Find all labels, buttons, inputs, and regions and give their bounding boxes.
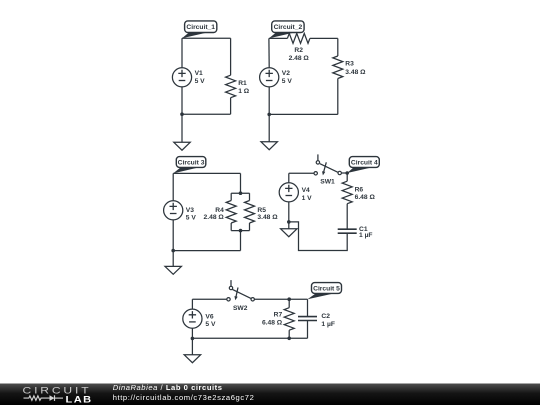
svg-text:Circuit_2: Circuit_2 bbox=[274, 24, 303, 31]
svg-text:1 V: 1 V bbox=[302, 195, 313, 202]
wire ground stub c2 bbox=[268, 114, 270, 141]
resistor R3 bbox=[333, 56, 366, 79]
svg-text:5 V: 5 V bbox=[195, 78, 206, 85]
svg-text:6.48 Ω: 6.48 Ω bbox=[355, 194, 376, 201]
ground c3 bbox=[165, 266, 181, 274]
voltage source V4 bbox=[279, 183, 312, 202]
wire top-left c2 bbox=[269, 37, 288, 39]
svg-text:R2: R2 bbox=[294, 47, 303, 54]
wire right upper c1 bbox=[230, 38, 232, 75]
resistor R2 bbox=[287, 33, 310, 62]
node Circuit 4 flag bbox=[347, 157, 379, 173]
svg-text:V3: V3 bbox=[186, 207, 194, 214]
node Circuit 3 flag bbox=[173, 157, 206, 174]
wire c1 bottom loop bbox=[289, 222, 347, 251]
wire right upper c2 bbox=[337, 38, 339, 56]
footer bar bbox=[0, 384, 540, 405]
wire bottom c1 bbox=[182, 113, 231, 115]
wire left lower c3 bbox=[172, 220, 174, 251]
svg-text:Circuit 4: Circuit 4 bbox=[351, 159, 378, 166]
svg-text:5 V: 5 V bbox=[205, 321, 216, 328]
svg-text:Circuit 5: Circuit 5 bbox=[313, 285, 340, 292]
svg-text:1 µF: 1 µF bbox=[359, 232, 373, 239]
ground c5 bbox=[184, 355, 200, 363]
svg-text:R7: R7 bbox=[274, 311, 283, 318]
wire r7 to c2 corner bbox=[289, 298, 307, 300]
node junction r7 bottom bbox=[287, 337, 291, 341]
node junction sw1/r6 bbox=[345, 171, 349, 175]
svg-text:V6: V6 bbox=[205, 313, 213, 320]
node junction c3 bbox=[171, 249, 175, 253]
wire bottom c5 bbox=[192, 337, 307, 339]
resistor R6 bbox=[342, 173, 375, 204]
wire right riser c3 bbox=[240, 231, 242, 251]
node junction c4 bbox=[287, 220, 291, 224]
wire v4 top riser bbox=[288, 173, 290, 182]
svg-text:1 Ω: 1 Ω bbox=[238, 88, 250, 95]
ground c4 bbox=[281, 229, 297, 237]
footer attribution line bbox=[113, 383, 223, 392]
capacitor C2 bbox=[298, 299, 335, 338]
svg-text:5 V: 5 V bbox=[186, 214, 197, 221]
ground c2 bbox=[261, 142, 277, 150]
resistor R7 bbox=[262, 299, 294, 338]
wire left lower c2 bbox=[268, 87, 270, 115]
wire bottom c3 bbox=[173, 250, 240, 252]
svg-text:R3: R3 bbox=[345, 61, 354, 68]
voltage source V6 bbox=[183, 309, 216, 328]
voltage source V3 bbox=[164, 201, 197, 222]
svg-text:http://circuitlab.com/c73e2sza: http://circuitlab.com/c73e2sza6gc72 bbox=[113, 393, 255, 402]
wire ground stub c1 bbox=[181, 114, 183, 142]
node junction c5 bbox=[191, 337, 195, 341]
svg-text:V2: V2 bbox=[282, 70, 290, 77]
svg-text:1 µF: 1 µF bbox=[321, 321, 335, 328]
CircuitLab logo wordmark bbox=[22, 386, 91, 396]
ground c1 bbox=[174, 142, 190, 150]
node junction sw2/r7 bbox=[287, 297, 291, 301]
svg-text:5 V: 5 V bbox=[282, 78, 293, 85]
wire to switch left c4 bbox=[289, 172, 314, 174]
CircuitLab logo circuit glyph bbox=[24, 395, 64, 401]
svg-text:R1: R1 bbox=[238, 80, 247, 87]
resistor R4 bbox=[204, 193, 237, 230]
wire left upper c1 bbox=[181, 38, 183, 67]
switch SW1 bbox=[314, 154, 341, 185]
svg-text:V4: V4 bbox=[302, 187, 310, 194]
svg-text:R5: R5 bbox=[257, 207, 266, 214]
wire right drop c3 bbox=[240, 173, 242, 193]
switch SW2 bbox=[227, 280, 255, 312]
wire top c1 bbox=[182, 37, 231, 39]
svg-text:3.48 Ω: 3.48 Ω bbox=[257, 214, 278, 221]
svg-text:6.48 Ω: 6.48 Ω bbox=[262, 320, 283, 327]
node junction c1 bbox=[180, 112, 184, 116]
wire v4 bottom bbox=[288, 202, 290, 222]
svg-text:C2: C2 bbox=[321, 313, 330, 320]
CircuitLab logo LAB bbox=[66, 395, 93, 405]
svg-text:2.48 Ω: 2.48 Ω bbox=[289, 55, 310, 62]
wire switch to r7 c5 bbox=[254, 298, 289, 300]
svg-text:3.48 Ω: 3.48 Ω bbox=[345, 69, 366, 76]
voltage source V2 bbox=[260, 68, 293, 87]
voltage source V1 bbox=[172, 68, 205, 87]
svg-text:V1: V1 bbox=[195, 70, 203, 77]
svg-text:SW2: SW2 bbox=[233, 305, 248, 312]
svg-text:Circuit_1: Circuit_1 bbox=[186, 24, 215, 31]
wire bottom c2 bbox=[269, 113, 338, 115]
wire right lower c1 bbox=[230, 98, 232, 115]
wire r6 to c1 bbox=[346, 204, 348, 230]
footer url line bbox=[113, 393, 255, 402]
node Circuit_2 flag bbox=[269, 21, 304, 39]
node parallel top junction bbox=[239, 191, 243, 195]
wire parallel bottom bar c3 bbox=[231, 230, 249, 232]
wire left lower c1 bbox=[181, 87, 183, 114]
resistor R1 bbox=[226, 75, 250, 98]
wire v6 top riser bbox=[191, 299, 193, 309]
resistor R5 bbox=[245, 193, 279, 230]
wire parallel top bar c3 bbox=[231, 192, 249, 194]
node Circuit_1 flag bbox=[182, 21, 217, 38]
svg-text:LAB: LAB bbox=[66, 395, 93, 405]
svg-text:DinaRabiea / Lab 0 circuits: DinaRabiea / Lab 0 circuits bbox=[113, 383, 223, 392]
wire left upper c3 bbox=[172, 173, 174, 200]
wire left upper c2 bbox=[268, 38, 270, 67]
node Circuit 5 flag bbox=[308, 283, 342, 300]
wire switch to node c4 bbox=[341, 172, 347, 174]
capacitor C1 bbox=[338, 226, 373, 239]
svg-text:Circuit 3: Circuit 3 bbox=[178, 159, 205, 166]
wire to switch left c5 bbox=[192, 298, 226, 300]
wire v6 bottom bbox=[191, 328, 193, 338]
node junction c2 bbox=[267, 113, 271, 117]
svg-text:SW1: SW1 bbox=[320, 178, 335, 185]
svg-text:R4: R4 bbox=[215, 207, 224, 214]
wire ground stub c4 bbox=[288, 222, 290, 229]
wire top-right c2 bbox=[310, 37, 338, 39]
node parallel bottom junction bbox=[239, 229, 243, 233]
wire right lower c2 bbox=[337, 79, 339, 115]
svg-text:R6: R6 bbox=[355, 186, 364, 193]
wire ground stub c3 bbox=[172, 251, 174, 267]
wire ground stub c5 bbox=[191, 338, 193, 354]
svg-text:2.48 Ω: 2.48 Ω bbox=[204, 214, 225, 221]
wire top c3 bbox=[173, 172, 240, 174]
